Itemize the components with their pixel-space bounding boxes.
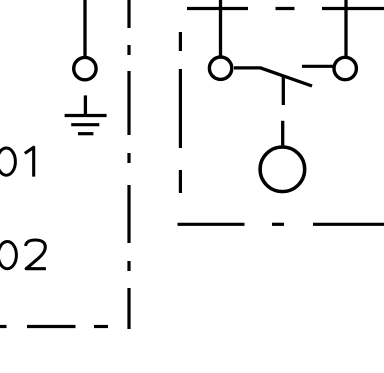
wire: vertical feeder into switch common terminal: [219, 0, 222, 56]
switch common terminal circle: [209, 57, 231, 79]
ground symbol stem: [84, 95, 87, 115]
actuator head: large circle (pushbutton / drive): [260, 147, 305, 192]
terminal circle (left, connection point): [74, 57, 96, 79]
ground symbol bar 1: [65, 114, 107, 117]
enclosure box: dash-dot left edge x=180.4: [179, 32, 182, 193]
switch fixed contact stub: [302, 65, 334, 68]
enclosure box: dash-dot bottom edge y=224.3: [178, 223, 384, 226]
label 02 (terminal row label, digit 0): [0, 242, 16, 269]
enclosure box: dash-dot top edge y=8.5: [187, 7, 384, 10]
ground symbol bar 3: [78, 132, 93, 135]
label 01 (terminal row label, digit 1): [25, 147, 34, 176]
ground symbol bar 2: [71, 123, 99, 126]
switch actuator link (dashed), segment 2: [281, 121, 284, 146]
switch actuator link (dashed), segment 1: [282, 77, 285, 106]
switch NO terminal circle: [334, 57, 356, 79]
label 01 (terminal row label, digit 0): [0, 148, 15, 175]
wire: vertical feeder into switch NO terminal: [344, 0, 347, 56]
wire: vertical feeder into left terminal: [83, 0, 86, 57]
boundary: dash-dot horizontal line y=326.5 (bottom left): [0, 325, 108, 328]
switch S1 moving blade (open contact): [234, 68, 312, 86]
boundary: dash-dot vertical separator line x=129: [127, 0, 130, 329]
label 02 (terminal row label, digit 2): [26, 240, 46, 269]
